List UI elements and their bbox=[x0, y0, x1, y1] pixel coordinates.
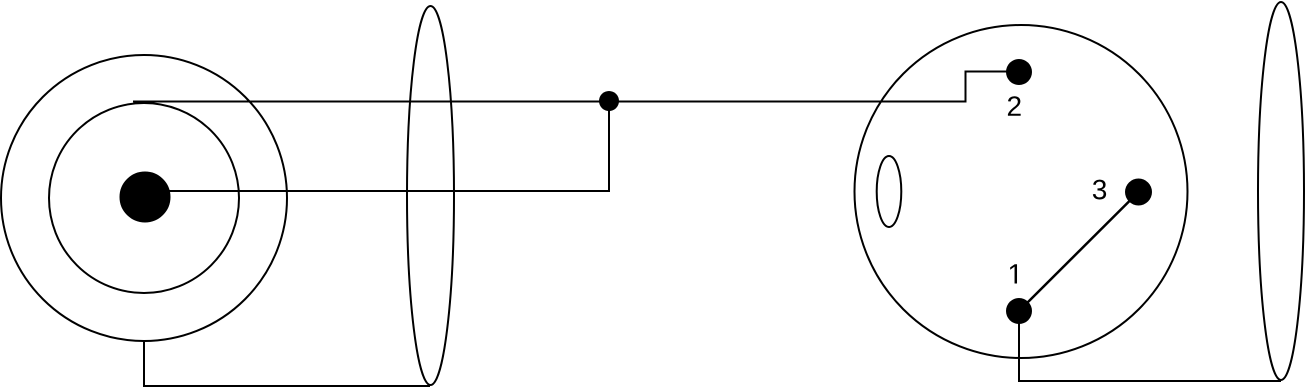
RCA tip contact (center pin, filled) bbox=[120, 172, 170, 222]
pin number label 2 bbox=[1008, 96, 1021, 116]
RCA connector J1 outer shield circle bbox=[1, 55, 287, 341]
XLR pin 3 contact (filled) bbox=[1125, 179, 1152, 206]
cable boundary ellipse (left, RCA side) bbox=[407, 6, 454, 385]
XLR connector J2 body circle bbox=[855, 25, 1188, 358]
RCA connector J1 inner ring circle bbox=[49, 103, 239, 293]
XLR pin 2 contact (filled) bbox=[1006, 59, 1032, 85]
wire: RCA tip to junction node bbox=[152, 102, 609, 192]
node: junction dot joining tip and ring conductors bbox=[599, 91, 619, 111]
XLR keyway slot ellipse bbox=[877, 156, 902, 227]
wire: jumper from XLR pin 1 to pin 3 bbox=[1019, 192, 1139, 311]
cable boundary ellipse (right, XLR side) bbox=[1258, 2, 1304, 380]
pin number label 3 bbox=[1093, 180, 1106, 200]
wire: hot conductor from RCA ring top to XLR pin 2 bbox=[133, 72, 1019, 102]
wire: shield from XLR pin 1 to right cable ellipse bottom bbox=[1019, 311, 1281, 381]
wire: shield from RCA body to left cable ellipse bottom bbox=[144, 341, 430, 386]
XLR pin 1 contact (filled) bbox=[1006, 298, 1032, 324]
pin number label 1 bbox=[1010, 264, 1017, 283]
